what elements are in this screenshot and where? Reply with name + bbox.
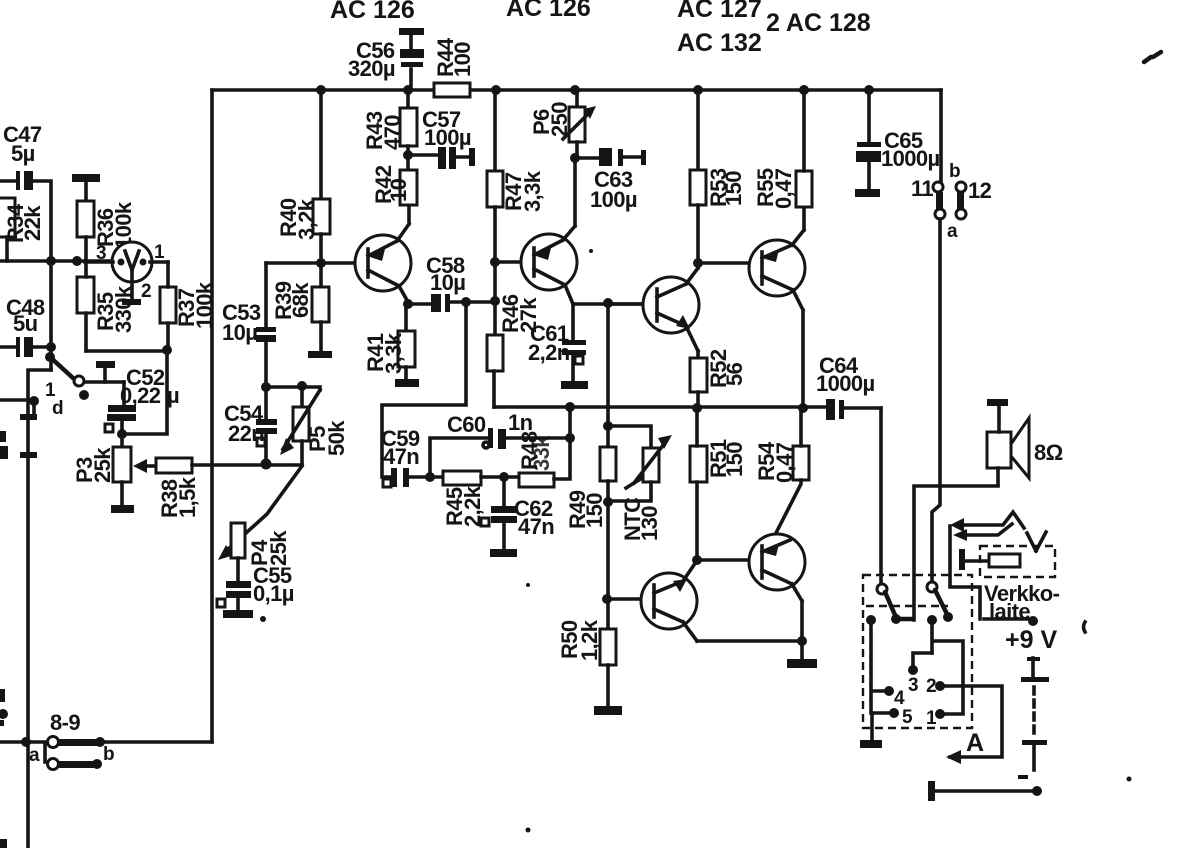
capacitor C52 <box>105 365 179 434</box>
dirt speck near C55 <box>260 616 266 622</box>
svg-text:1,5k: 1,5k <box>175 476 200 518</box>
svg-text:150: 150 <box>721 171 746 206</box>
svg-text:C60: C60 <box>447 412 486 437</box>
wire switch pole 2 to pin 1 <box>932 620 963 714</box>
node P5 top <box>297 381 307 391</box>
svg-text:µ: µ <box>167 383 179 408</box>
node P6 bottom / Q2 emitter <box>570 153 580 163</box>
resistor R49 <box>565 447 616 529</box>
svg-text:12: 12 <box>968 178 992 203</box>
node R45/C62 <box>499 472 509 482</box>
capacitor C62 <box>481 477 554 557</box>
resistor R44 <box>434 83 470 97</box>
svg-text:100µ: 100µ <box>590 187 637 212</box>
wire Q2 base lead <box>495 260 534 264</box>
svg-text:2: 2 <box>926 676 937 697</box>
wire supply bus right segment <box>470 88 941 92</box>
wire output/feedback line y407 <box>494 405 826 409</box>
node Q2 base <box>490 257 500 267</box>
pin 1 <box>935 709 945 719</box>
terminal T above switch line <box>96 361 115 382</box>
node bus x804 <box>799 85 809 95</box>
svg-text:10µ: 10µ <box>222 320 257 345</box>
resistor R37 <box>160 262 217 350</box>
potentiometer P4 with wiper from node <box>218 466 302 566</box>
dashed gang link between levers <box>866 605 948 607</box>
capacitor C59 <box>381 426 443 487</box>
verkkolaite solid outline <box>950 526 1030 619</box>
svg-text:a: a <box>947 221 958 242</box>
resistor R53 <box>690 90 746 263</box>
resistor R52 <box>690 349 747 408</box>
node main y465 <box>261 459 272 470</box>
wire Q1 base line <box>266 261 368 265</box>
wire long left vertical rail <box>210 90 214 742</box>
node verkkolaite output <box>1028 616 1038 626</box>
svg-text:0,47: 0,47 <box>771 168 796 209</box>
wire loop down to C52 bottom <box>122 350 167 434</box>
capacitor C48 <box>0 295 51 357</box>
switch box dashed outline <box>863 575 972 728</box>
svg-text:d: d <box>52 398 64 419</box>
capacitor C56 <box>348 28 424 90</box>
capacitor C55 <box>217 558 294 618</box>
switch contact 1 <box>877 584 912 624</box>
wire Q4 base lead <box>698 261 762 265</box>
wire speaker return <box>914 486 998 620</box>
svg-text:2: 2 <box>141 281 152 302</box>
svg-text:150: 150 <box>722 442 747 477</box>
pin 3 <box>908 665 918 675</box>
node bus x698 <box>693 85 703 95</box>
text fragment left edge <box>0 431 8 459</box>
terminal bar y452 <box>20 452 37 458</box>
capacitor C60 <box>430 410 570 477</box>
wire connector down to switch <box>932 219 940 581</box>
node riser top on output line <box>565 402 575 412</box>
dirt speck mid <box>526 583 530 587</box>
resistor R38 with wiper arrow <box>133 458 266 518</box>
transistor Q2 AC126 <box>521 158 577 304</box>
transistor Q6 AC132 <box>607 562 697 641</box>
resistor R55 <box>753 90 812 209</box>
resistor R54 <box>754 408 809 535</box>
ground below Q5/Q6 <box>787 641 817 668</box>
wire bottom loop R35-R37 <box>86 349 167 353</box>
svg-text:a: a <box>29 745 40 766</box>
transistor Q1 AC126 <box>355 205 411 302</box>
node Q3 base <box>603 298 613 308</box>
wire contact to pins 4,5 <box>871 620 891 713</box>
svg-text:+9 V: +9 V <box>1005 626 1057 654</box>
capacitor C61 <box>528 304 588 389</box>
transistor Q5 AC128 <box>749 534 805 641</box>
svg-text:10: 10 <box>386 178 411 202</box>
wire Q2 collector to Q3 base <box>573 302 656 306</box>
node C59/R45/C60 <box>425 472 435 482</box>
svg-text:1: 1 <box>154 242 165 263</box>
potentiometer P5 <box>266 386 349 465</box>
node C58 right <box>461 297 471 307</box>
svg-text:22k: 22k <box>20 205 45 241</box>
potentiometer P3 <box>72 434 134 513</box>
svg-text:8Ω: 8Ω <box>1034 440 1063 465</box>
svg-text:470: 470 <box>380 115 405 150</box>
resistor R43 <box>362 90 417 170</box>
node bus x408 <box>403 85 413 95</box>
svg-text:AC 126: AC 126 <box>330 0 415 24</box>
svg-text:3: 3 <box>908 675 919 696</box>
connector 11-12 <box>911 161 992 242</box>
svg-text:250: 250 <box>547 102 572 137</box>
contact dot left of lever 1 <box>866 615 876 625</box>
svg-text:5: 5 <box>902 707 913 728</box>
svg-text:A: A <box>966 729 984 757</box>
svg-text:320µ: 320µ <box>348 56 395 81</box>
wire supply bus left segment <box>212 88 434 92</box>
svg-text:0,1µ: 0,1µ <box>253 581 294 606</box>
svg-text:b: b <box>949 161 961 182</box>
terminal bar y414 <box>20 414 37 420</box>
svg-text:1,2k: 1,2k <box>577 619 602 661</box>
node bus x869 <box>864 85 874 95</box>
node Q2 base column <box>490 296 500 306</box>
capacitor C54 <box>224 387 277 464</box>
verkkolaite plug pin <box>959 549 965 570</box>
svg-text:25k: 25k <box>266 530 291 566</box>
wire left input y400 <box>0 398 34 402</box>
resistor R35 <box>77 261 136 351</box>
transducer mic element <box>85 242 168 305</box>
capacitor C64 <box>816 353 881 420</box>
pin 2 with wire to A <box>935 681 945 691</box>
capacitor C65 <box>855 90 940 197</box>
dirt speck right mid <box>1127 777 1132 782</box>
text fragment left edge lower <box>0 689 8 726</box>
contact dot below lever 2 <box>927 615 937 625</box>
transistor Q3 AC127 <box>608 263 699 351</box>
node x34 y401 <box>29 396 39 406</box>
node bus x496 <box>491 85 501 95</box>
svg-text:100: 100 <box>450 42 475 77</box>
svg-text:25k: 25k <box>90 447 115 483</box>
wire node line y261 <box>0 259 110 263</box>
battery 9V <box>1018 657 1049 779</box>
svg-text:3,2k: 3,2k <box>294 198 319 240</box>
svg-text:laite: laite <box>989 599 1030 624</box>
resistor R48 <box>517 407 570 487</box>
wire x51 down to switch <box>49 261 53 370</box>
resistor R45 <box>442 471 519 527</box>
node C53 bottom <box>261 382 271 392</box>
svg-text:100k: 100k <box>192 281 217 329</box>
svg-text:3: 3 <box>96 243 107 264</box>
node x51 y261 <box>46 256 56 266</box>
node NTC branch top <box>603 421 613 431</box>
svg-text:11: 11 <box>911 176 933 201</box>
node R52/R51 on output line <box>692 403 702 413</box>
capacitor C47 <box>0 122 51 261</box>
node R49/NTC bottom <box>603 497 613 507</box>
svg-text:0,22: 0,22 <box>120 383 161 408</box>
resistor R41 <box>363 304 419 387</box>
node output ground <box>797 636 807 646</box>
svg-text:50k: 50k <box>324 420 349 456</box>
resistor R42 <box>371 165 417 205</box>
svg-text:2,2n: 2,2n <box>528 340 570 365</box>
switch contact 2 <box>927 582 953 622</box>
node C52 bottom <box>117 429 127 439</box>
node x51 y347 <box>46 342 56 352</box>
transistor Q4 AC128 <box>749 207 805 408</box>
svg-text:130: 130 <box>637 506 662 541</box>
dirt speck bottom <box>526 828 531 833</box>
resistor R40 <box>276 90 330 287</box>
wire C58 node down and left rail <box>382 302 466 477</box>
wire stub below node <box>32 401 36 413</box>
node Q1 collector <box>403 299 413 309</box>
svg-text:47n: 47n <box>518 514 554 539</box>
dirt speck paren <box>1084 622 1086 632</box>
svg-text:5u: 5u <box>13 311 37 336</box>
wire column to Q6 base <box>606 502 610 629</box>
wire Q6 collector to ground node <box>697 639 802 643</box>
svg-text:1000µ: 1000µ <box>816 371 875 396</box>
wire bias column x608 <box>606 303 610 447</box>
capacitor C58 <box>408 253 496 312</box>
node R43/R42/C57 <box>403 150 413 160</box>
resistor R51 <box>690 408 747 560</box>
resistor R50 <box>557 619 622 715</box>
thermistor NTC <box>608 426 672 541</box>
svg-text:1n: 1n <box>508 410 533 435</box>
svg-text:10µ: 10µ <box>430 270 465 295</box>
svg-text:AC 132: AC 132 <box>677 29 762 57</box>
resistor R34 <box>0 198 45 261</box>
dirt speck center <box>589 249 593 253</box>
verkkolaite winding <box>989 554 1020 567</box>
svg-text:4: 4 <box>894 688 905 709</box>
svg-text:AC 126: AC 126 <box>506 0 591 22</box>
mains adapter arrows <box>950 512 1046 551</box>
resistor R47 <box>487 90 545 335</box>
capacitor C63 <box>575 148 646 212</box>
svg-text:1000µ: 1000µ <box>881 146 940 171</box>
wire corner to left rail <box>28 370 51 848</box>
svg-text:150: 150 <box>582 493 607 528</box>
wire bus right end down to connector 11 <box>939 90 943 183</box>
battery return wire with terminal <box>928 781 1042 801</box>
svg-text:33k: 33k <box>529 435 554 471</box>
resistor R46 <box>487 294 541 407</box>
node bus x321 <box>316 85 326 95</box>
svg-text:56: 56 <box>722 362 747 386</box>
node Q1 base <box>316 258 326 268</box>
svg-text:0,47: 0,47 <box>772 442 797 483</box>
wire to P5 top <box>266 387 320 390</box>
svg-text:AC 127: AC 127 <box>677 0 762 23</box>
svg-text:47n: 47n <box>383 444 419 469</box>
switch input selector lever <box>45 352 124 419</box>
node C60/R48 riser <box>565 433 575 443</box>
node Q5 base <box>692 555 702 565</box>
capacitor C57 <box>408 107 475 169</box>
node x167 y350 <box>162 345 172 355</box>
svg-text:3,3k: 3,3k <box>381 332 406 374</box>
connector 8-9 <box>0 710 212 770</box>
ground below switch box <box>860 713 882 748</box>
node x77 y262 <box>72 256 82 266</box>
svg-text:22n: 22n <box>228 421 264 446</box>
resistor R36 with top terminal <box>72 174 136 261</box>
svg-text:3,3k: 3,3k <box>520 170 545 212</box>
wire Q5 base lead <box>697 558 762 562</box>
potentiometer P6 <box>529 90 596 158</box>
verkkolaite dashed box <box>980 546 1055 577</box>
svg-text:2 AC 128: 2 AC 128 <box>766 9 871 37</box>
capacitor C53 <box>222 263 276 387</box>
dirt speck right top <box>1144 57 1151 62</box>
dirt speck right top 2 <box>1153 52 1161 57</box>
svg-text:5µ: 5µ <box>11 141 35 166</box>
pin 4 <box>884 686 894 696</box>
svg-text:8-9: 8-9 <box>50 710 80 735</box>
node bus x575 <box>570 85 580 95</box>
wire output down to switch <box>879 408 883 582</box>
svg-text:330k: 330k <box>111 285 136 333</box>
pin 5 <box>889 708 899 718</box>
speaker 8ohm <box>987 399 1063 485</box>
svg-text:68k: 68k <box>288 282 313 318</box>
resistor R39 <box>271 281 332 358</box>
svg-text:1: 1 <box>926 708 937 729</box>
node Q4 collector on output line <box>798 403 808 413</box>
node Q4 base <box>693 258 703 268</box>
svg-text:100µ: 100µ <box>424 125 471 150</box>
node Q6 base <box>602 594 612 604</box>
svg-text:b: b <box>103 744 115 765</box>
text fragment bottom left corner <box>0 839 7 848</box>
